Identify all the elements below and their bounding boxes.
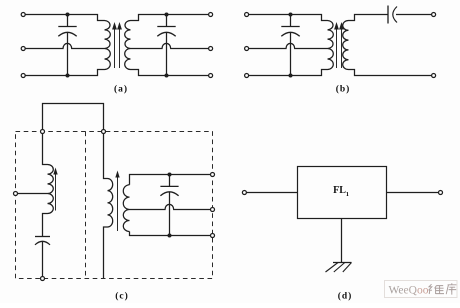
svg-text:1: 1 [346,191,349,198]
svg-text:WeeQoo: WeeQoo [389,285,429,297]
svg-text:(a): (a) [114,84,128,95]
svg-text:(d): (d) [338,291,353,302]
svg-text:(b): (b) [336,84,351,95]
svg-text:(c): (c) [115,291,129,302]
svg-text:FL: FL [333,185,346,196]
